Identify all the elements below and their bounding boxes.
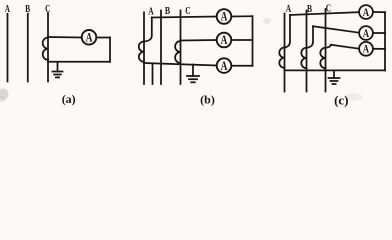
phase line B: [160, 11, 162, 85]
ammeter PA1: [359, 5, 373, 19]
wire: CT-A hook up: [144, 18, 152, 42]
wire: right side down: [109, 38, 111, 62]
svg-text:(c): (c): [334, 92, 348, 107]
svg-text:A: A: [363, 28, 370, 40]
CT coil on phase A: [139, 42, 144, 62]
stub wire below bus: [152, 63, 154, 84]
wire: CT-B hook up: [307, 26, 314, 48]
phase line B: [27, 14, 29, 82]
wire: ammeter1 to bus: [373, 11, 385, 13]
wire: CT-C to ammeter2: [181, 39, 217, 42]
phase line C: [47, 13, 49, 82]
ground: [57, 62, 59, 72]
svg-text:A: A: [221, 10, 228, 24]
svg-text:B: B: [25, 4, 30, 15]
ammeter PA1: [82, 30, 97, 45]
svg-text:C: C: [326, 4, 331, 15]
right bus: [252, 16, 254, 65]
CT coil on phase C: [43, 38, 48, 60]
svg-text:B: B: [307, 4, 312, 15]
svg-text:A: A: [5, 4, 11, 15]
svg-text:A: A: [148, 7, 154, 18]
wire: ammeter3 to bus: [373, 48, 385, 50]
ammeter PA2: [217, 33, 232, 48]
common bus wire: [144, 63, 217, 66]
svg-text:A: A: [363, 7, 370, 19]
phase line B: [306, 11, 308, 92]
CT coil on phase C: [175, 41, 180, 63]
wire: CT-A hook up: [285, 15, 291, 48]
svg-text:A: A: [286, 4, 292, 15]
svg-text:B: B: [165, 6, 170, 17]
phase line A: [284, 14, 286, 92]
wire: top run to ammeter1: [290, 12, 359, 15]
wire: run to ammeter3: [331, 45, 359, 49]
wire: ammeter2 to bus: [231, 39, 252, 41]
wire: CT top to ammeter: [48, 36, 82, 39]
CT coil on phase A: [279, 48, 284, 68]
phase line C: [180, 11, 182, 85]
ground: [192, 65, 194, 76]
scan smudge faint mid: [263, 18, 271, 24]
wire: bottom return to CT: [48, 61, 110, 63]
paper background: [0, 0, 392, 109]
wire: CT-C hook: [326, 45, 331, 48]
phase line A: [7, 14, 9, 82]
ammeter PA1: [217, 9, 232, 24]
CT coil on phase C: [320, 48, 325, 68]
right bus: [384, 12, 386, 70]
svg-text:A: A: [86, 31, 93, 45]
wire: ammeter2 to bus: [373, 32, 385, 34]
wire: run to ammeter2: [313, 26, 359, 32]
common bottom bus: [285, 69, 386, 71]
svg-text:(a): (a): [62, 92, 76, 106]
ground: [333, 70, 335, 78]
svg-text:C: C: [45, 4, 50, 15]
ammeter PA3: [217, 58, 232, 73]
ammeter PA3: [359, 42, 373, 56]
svg-text:A: A: [363, 44, 370, 56]
ammeter PA2: [359, 26, 373, 40]
CT coil on phase B: [301, 48, 306, 68]
svg-text:A: A: [221, 33, 228, 47]
wire: ammeter1 to bus: [231, 15, 252, 17]
wire: ammeter3 to bus: [231, 65, 252, 67]
svg-text:(b): (b): [200, 92, 215, 106]
phase line A: [143, 12, 145, 84]
wire: ammeter to right corner: [96, 37, 110, 39]
wire: top run to ammeter: [152, 17, 217, 18]
phase line C: [325, 9, 327, 92]
svg-text:C: C: [185, 6, 190, 17]
svg-text:A: A: [221, 59, 228, 73]
scan smudge bottom-left: [0, 89, 9, 100]
